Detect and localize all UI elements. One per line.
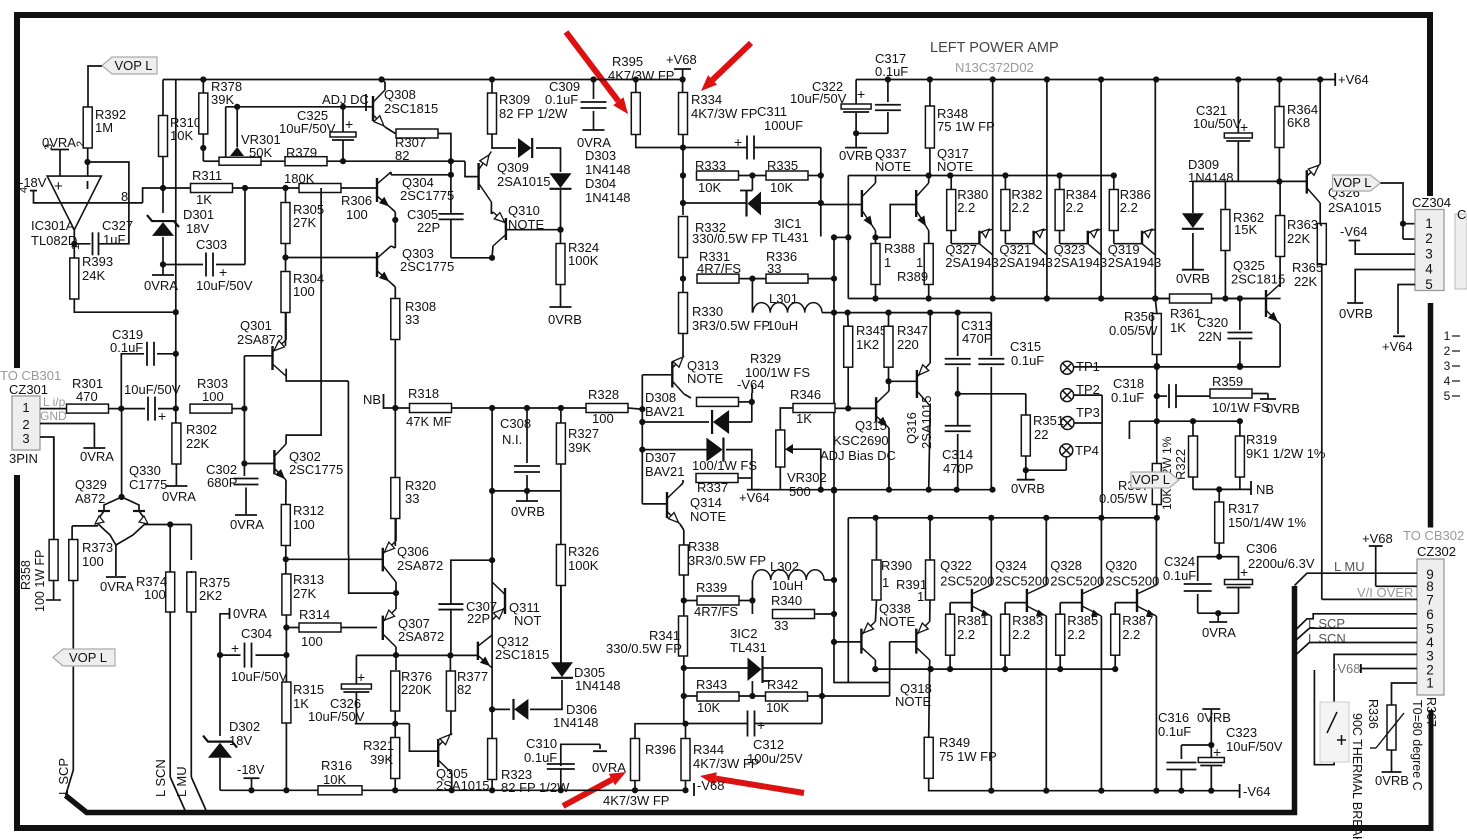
svg-text:22N: 22N [1198, 329, 1222, 344]
wire [536, 148, 561, 172]
wire pin1 [40, 408, 67, 410]
wire [1025, 456, 1027, 470]
resistor R365 [1317, 224, 1326, 265]
svg-text:VOP L: VOP L [69, 650, 107, 665]
svg-text:1: 1 [1426, 676, 1434, 691]
svg-text:C316: C316 [1158, 710, 1189, 725]
svg-text:7: 7 [1426, 593, 1434, 608]
wire rail 175.5 [848, 175, 1114, 177]
wire [888, 368, 890, 382]
svg-text:0.1uF: 0.1uF [110, 340, 143, 355]
resistor R319 [1235, 436, 1244, 477]
svg-text:R315: R315 [293, 682, 324, 697]
svg-text:3R3/0.5W FP: 3R3/0.5W FP [688, 553, 766, 568]
svg-text:3: 3 [1426, 649, 1434, 664]
svg-text:0.1uF: 0.1uF [875, 64, 908, 79]
transistor Q305 [437, 739, 439, 767]
wire [285, 480, 287, 504]
wire [683, 575, 685, 716]
svg-text:82: 82 [457, 682, 471, 697]
wire [53, 437, 55, 539]
wire [682, 334, 684, 356]
wire [561, 407, 586, 409]
transistor Q310 [505, 218, 507, 240]
wire [680, 524, 684, 530]
ground 0VRA D301 [152, 274, 174, 276]
svg-text:10K: 10K [770, 180, 793, 195]
wire [395, 655, 397, 670]
svg-text:TL431: TL431 [772, 230, 809, 245]
svg-text:2SC1775: 2SC1775 [400, 259, 454, 274]
svg-text:+: + [1240, 564, 1248, 580]
svg-text:150/1/4W 1%: 150/1/4W 1% [1228, 515, 1306, 530]
svg-text:1: 1 [916, 255, 923, 270]
svg-text:10uH: 10uH [772, 578, 803, 593]
wire [888, 428, 890, 490]
wire [929, 600, 931, 622]
wire col 175.8 [175, 80, 177, 425]
svg-text:+V68: +V68 [1362, 531, 1393, 546]
svg-text:0.1uF: 0.1uF [1111, 390, 1144, 405]
svg-text:T0=80 degree C: T0=80 degree C [1410, 700, 1424, 791]
ground 0VRA C309 [583, 129, 605, 131]
transistor Q301 [271, 346, 273, 370]
wire [928, 176, 930, 184]
svg-text:R319: R319 [1246, 432, 1277, 447]
resistor R364 [1275, 107, 1284, 148]
wire bottom row [220, 789, 683, 791]
svg-text:1N4148: 1N4148 [553, 715, 599, 730]
wire [397, 407, 410, 409]
svg-text:2SC1815: 2SC1815 [1231, 272, 1285, 287]
svg-text:33: 33 [767, 261, 781, 276]
wire pin3 [1314, 654, 1417, 764]
svg-text:2SA872: 2SA872 [398, 629, 444, 644]
wire [751, 489, 753, 491]
red arrow to R396 [563, 780, 612, 806]
wire [683, 355, 684, 357]
svg-text:330/0.5W FP: 330/0.5W FP [606, 641, 682, 656]
wire [560, 190, 562, 243]
resistor R389 [924, 244, 933, 285]
svg-text:C303: C303 [196, 237, 227, 252]
svg-text:NB: NB [1256, 482, 1274, 497]
svg-text:2SC5200: 2SC5200 [940, 574, 994, 589]
svg-text:C1775: C1775 [129, 477, 167, 492]
wire [1155, 299, 1157, 314]
diode D303 [518, 138, 532, 158]
svg-text:R327: R327 [568, 426, 599, 441]
svg-text:39K: 39K [211, 92, 234, 107]
wire [162, 237, 164, 275]
svg-text:4: 4 [18, 187, 30, 193]
svg-text:1: 1 [1444, 329, 1451, 343]
wire [175, 464, 177, 486]
svg-text:R383: R383 [1012, 613, 1043, 628]
wire [636, 135, 683, 148]
svg-text:0VRB: 0VRB [1266, 401, 1300, 416]
wire [876, 518, 878, 560]
wire [685, 724, 687, 739]
svg-text:4: 4 [1425, 262, 1433, 277]
svg-text:3: 3 [22, 431, 29, 446]
svg-text:10K: 10K [697, 700, 720, 715]
wire top rail left [163, 79, 683, 81]
resistor R345 [844, 326, 853, 367]
wire pin9 L MU [1295, 573, 1418, 585]
svg-text:+: + [757, 717, 765, 733]
resistor R308 [391, 299, 400, 340]
svg-text:8: 8 [121, 189, 128, 204]
svg-text:-V68: -V68 [1333, 661, 1360, 676]
svg-text:500: 500 [789, 484, 811, 499]
svg-text:2SC1775: 2SC1775 [289, 462, 343, 477]
wire [491, 212, 493, 214]
wire [1156, 367, 1158, 463]
svg-text:0VRB: 0VRB [1197, 710, 1231, 725]
svg-text:R326: R326 [568, 544, 599, 559]
resistor R375 [187, 572, 196, 612]
svg-text:4R7/FS: 4R7/FS [694, 604, 738, 619]
connector CZ302 [1417, 559, 1444, 695]
svg-text:D303: D303 [585, 148, 616, 163]
transistor Q316 2SA1015 [916, 370, 918, 398]
wire rail 517.8 [848, 517, 1157, 519]
resistor R384 [1059, 176, 1061, 190]
wire pin6 [1295, 614, 1418, 631]
svg-text:KSC2690: KSC2690 [833, 433, 889, 448]
svg-text:0VRA: 0VRA [233, 606, 267, 621]
diode D304 [550, 173, 572, 188]
svg-text:2: 2 [75, 141, 87, 147]
resistor R377 [446, 671, 455, 711]
svg-text:C: C [1457, 207, 1466, 222]
svg-text:39K: 39K [568, 440, 591, 455]
wire [684, 394, 691, 398]
svg-text:82 FP 1/2W: 82 FP 1/2W [501, 780, 570, 795]
wire [395, 593, 397, 609]
svg-text:27K: 27K [293, 586, 316, 601]
resistor R388 [871, 244, 880, 285]
wire row 257.8 [451, 257, 492, 259]
svg-text:0.05/5W: 0.05/5W [1109, 323, 1158, 338]
resistor R392 [83, 107, 92, 148]
svg-text:Q328: Q328 [1050, 558, 1082, 573]
wire [72, 525, 98, 527]
wire row 655 [356, 654, 478, 656]
svg-text:VOP L: VOP L [114, 58, 152, 73]
wire [450, 733, 453, 735]
resistor R382 [1004, 176, 1006, 190]
svg-text:-V64: -V64 [1340, 224, 1367, 239]
transistor Q322 2SC5200 [990, 518, 992, 585]
svg-text:Q322: Q322 [940, 558, 972, 573]
ground 0VRB C322 [845, 147, 867, 149]
wire [530, 680, 562, 709]
resistor R313 [282, 574, 291, 615]
svg-text:100K: 100K [568, 253, 599, 268]
svg-text:10uF/50V: 10uF/50V [1226, 739, 1283, 754]
svg-text:Q309: Q309 [497, 160, 529, 175]
resistor R315 [282, 682, 291, 723]
svg-text:4K7/3W FP: 4K7/3W FP [608, 68, 674, 83]
resistor R387 [1114, 603, 1116, 615]
wire [342, 107, 344, 111]
svg-text:2SA1015: 2SA1015 [436, 778, 490, 793]
svg-text:R343: R343 [696, 677, 727, 692]
wire [928, 778, 930, 791]
resistor R381 [949, 603, 951, 615]
svg-text:BAV21: BAV21 [645, 404, 685, 419]
wire column 492 [491, 408, 493, 560]
svg-text:Q330: Q330 [129, 463, 161, 478]
svg-text:+V64: +V64 [739, 490, 770, 505]
wire [560, 585, 562, 666]
resistor R307 [396, 129, 438, 138]
resistor R306 [299, 184, 341, 193]
svg-text:2.2: 2.2 [1066, 200, 1084, 215]
svg-text:TO CB301: TO CB301 [0, 368, 61, 383]
svg-text:Q320: Q320 [1105, 558, 1137, 573]
wire [1198, 612, 1239, 614]
wire rail right [856, 79, 1335, 81]
resistor R326 [556, 545, 565, 586]
transistor Q307 [382, 616, 384, 640]
wire [285, 546, 287, 574]
wire col348 [347, 381, 349, 555]
svg-text:10K: 10K [170, 128, 193, 143]
svg-text:R351: R351 [1033, 413, 1064, 428]
wire [1403, 223, 1415, 225]
thermal breaker [1320, 702, 1349, 762]
svg-text:1K2: 1K2 [856, 337, 879, 352]
svg-text:2.2: 2.2 [1011, 200, 1029, 215]
wire [928, 231, 930, 243]
svg-text:BAV21: BAV21 [645, 464, 685, 479]
wire [834, 642, 890, 683]
wire [684, 667, 748, 669]
svg-text:22K: 22K [186, 436, 209, 451]
diode D301 zener [152, 222, 174, 236]
resistor R386 [1113, 176, 1115, 190]
wire [1278, 80, 1280, 107]
capacitor C305 [439, 213, 464, 215]
ground 0VRB D309 [1182, 269, 1204, 271]
frame top bar [16, 12, 1430, 18]
svg-text:+: + [158, 408, 166, 424]
shunt-ref 3IC2 TL431 [748, 658, 762, 682]
wire [190, 525, 192, 561]
svg-text:+: + [357, 669, 365, 685]
wire [820, 148, 822, 237]
wire [751, 176, 753, 191]
wire [683, 716, 685, 724]
svg-text:15K: 15K [1234, 222, 1257, 237]
svg-text:R373: R373 [82, 540, 113, 555]
svg-text:1: 1 [884, 255, 891, 270]
svg-text:3IC2: 3IC2 [730, 626, 757, 641]
svg-text:-V64: -V64 [1243, 784, 1270, 799]
wire [162, 156, 164, 188]
wire [684, 600, 698, 602]
wire [492, 490, 561, 492]
svg-text:90C THERMAL BREAKER: 90C THERMAL BREAKER [1350, 713, 1364, 839]
svg-text:2SC1815: 2SC1815 [495, 647, 549, 662]
svg-text:1M: 1M [95, 120, 113, 135]
svg-text:2.2: 2.2 [957, 627, 975, 642]
resistor R346 [793, 404, 835, 413]
transistor Q325 [1265, 290, 1267, 317]
svg-text:2SA1943: 2SA1943 [1108, 255, 1162, 270]
svg-text:100: 100 [82, 554, 104, 569]
wire [162, 80, 164, 117]
wire pin1 [1392, 683, 1418, 705]
transistor Q320 2SC5200 [1155, 518, 1157, 585]
wire [163, 187, 191, 189]
capacitor C307 [438, 603, 463, 605]
wire row 421 [1129, 420, 1240, 422]
wire pin8 [1376, 585, 1417, 587]
svg-text:24K: 24K [82, 268, 105, 283]
svg-text:CZ304: CZ304 [1412, 195, 1451, 210]
wire [876, 205, 917, 238]
svg-text:R312: R312 [293, 503, 324, 518]
wire [491, 709, 493, 738]
wire [1192, 233, 1194, 269]
wire [219, 758, 221, 790]
resistor R358 [49, 540, 58, 581]
wire [232, 187, 299, 189]
svg-text:V/I OVER: V/I OVER [1357, 585, 1413, 600]
transistor Q302 [273, 450, 275, 474]
potentiometer VR301 [219, 157, 261, 165]
svg-text:82: 82 [395, 148, 409, 163]
ground 0VRB C308 [516, 500, 538, 502]
svg-text:+V68: +V68 [666, 52, 697, 67]
wire [751, 681, 753, 696]
wire [874, 660, 876, 669]
ground 0VRA C306 [1209, 621, 1227, 623]
svg-text:Q315: Q315 [855, 418, 887, 433]
wire [465, 161, 479, 176]
wire pin7 [1322, 598, 1417, 600]
svg-text:3PIN: 3PIN [9, 451, 38, 466]
resistor R338 [679, 545, 688, 575]
svg-text:L i/p: L i/p [43, 395, 66, 409]
frame bottom bar [14, 825, 1433, 831]
svg-text:100: 100 [144, 587, 166, 602]
wire [726, 450, 752, 478]
svg-text:N13C372D02: N13C372D02 [955, 60, 1034, 75]
VOP L flag right [1333, 175, 1381, 191]
svg-text:R388: R388 [884, 241, 915, 256]
resistor R310 [159, 116, 168, 157]
wire [202, 80, 204, 94]
svg-text:100K: 100K [568, 558, 599, 573]
svg-text:6K8: 6K8 [1287, 115, 1310, 130]
svg-text:Q308: Q308 [384, 87, 416, 102]
svg-text:N.I.: N.I. [502, 432, 522, 447]
svg-text:220: 220 [897, 337, 919, 352]
wire [683, 540, 685, 545]
svg-text:NOTE: NOTE [690, 509, 726, 524]
svg-text:0VRA: 0VRA [80, 449, 114, 464]
svg-text:2: 2 [22, 417, 29, 432]
ground 0VRA C302 [235, 514, 257, 516]
wire [929, 80, 931, 107]
wire [115, 545, 117, 576]
wire [285, 313, 287, 346]
wire rail 489.7 [752, 489, 992, 491]
wire [628, 408, 642, 409]
resistor R362 [1221, 210, 1230, 251]
svg-text:L MU: L MU [174, 766, 189, 797]
red arrow to R334 [713, 43, 752, 80]
wire [1181, 744, 1211, 746]
svg-text:3: 3 [43, 144, 55, 150]
svg-text:4: 4 [1444, 374, 1451, 388]
wire [341, 627, 377, 629]
wire [391, 246, 395, 248]
svg-text:R337: R337 [697, 480, 728, 495]
wire [108, 408, 145, 410]
svg-text:NB: NB [363, 392, 381, 407]
svg-text:A872: A872 [75, 491, 105, 506]
resistor R343 [697, 692, 739, 701]
svg-text:R322: R322 [1173, 449, 1188, 480]
svg-text:5: 5 [1444, 389, 1451, 403]
wire [285, 615, 287, 683]
wire [145, 524, 170, 526]
resistor R357 [1152, 464, 1161, 505]
svg-text:10uF/50V: 10uF/50V [231, 669, 288, 684]
svg-text:R358: R358 [19, 560, 33, 590]
svg-text:10uH: 10uH [767, 318, 798, 333]
svg-text:R356: R356 [1124, 309, 1155, 324]
resistor R302 [172, 423, 181, 464]
wire [394, 212, 396, 248]
wire [394, 724, 396, 738]
wire [162, 188, 164, 213]
wire [491, 560, 493, 709]
wire [875, 176, 877, 184]
wire [875, 285, 877, 299]
ground 0VRA pin2 [83, 447, 105, 449]
svg-text:0VRB: 0VRB [1375, 773, 1409, 788]
wire [341, 187, 377, 189]
resistor R333 [697, 171, 739, 180]
svg-text:NOTE: NOTE [895, 694, 931, 709]
svg-text:C311: C311 [757, 104, 787, 119]
wire [1252, 393, 1268, 395]
wire [73, 230, 75, 258]
transistor Q319 2SA1943 [1113, 231, 1115, 244]
svg-text:R309: R309 [499, 92, 530, 107]
svg-text:+: + [345, 116, 353, 132]
wire [236, 107, 238, 147]
wire [847, 176, 849, 299]
svg-text:R347: R347 [897, 323, 928, 338]
transistor Q324 2SC5200 [1045, 518, 1047, 585]
connector small C right [1455, 214, 1467, 289]
svg-text:2: 2 [1425, 231, 1433, 246]
resistor R380 [950, 176, 952, 190]
svg-text:10K: 10K [766, 700, 789, 715]
svg-text:100: 100 [202, 389, 224, 404]
svg-text:R365: R365 [1292, 260, 1323, 275]
wire [835, 407, 876, 409]
resistor R305 [281, 203, 290, 244]
